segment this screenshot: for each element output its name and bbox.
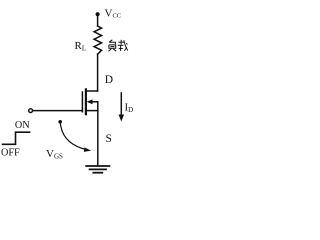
VGS curved arrow bbox=[58, 120, 62, 124]
MOSFET Q1 channel segment bottom bbox=[85, 107, 87, 114]
svg-text:RL: RL bbox=[75, 40, 87, 53]
svg-text:ID: ID bbox=[125, 102, 134, 115]
MOSFET Q1 gate plate bbox=[81, 92, 83, 112]
ID current arrow bbox=[120, 93, 122, 116]
svg-text:VCC: VCC bbox=[105, 8, 122, 20]
svg-text:OFF: OFF bbox=[1, 148, 20, 159]
svg-text:D: D bbox=[105, 74, 113, 86]
gate input open terminal bbox=[29, 109, 33, 113]
svg-text:S: S bbox=[106, 133, 112, 145]
Vcc terminal dot bbox=[96, 12, 100, 16]
MOSFET Q1 body arrow bbox=[92, 101, 98, 103]
ground bbox=[86, 166, 109, 173]
载 bbox=[118, 41, 124, 43]
wire resistor to drain bbox=[97, 54, 99, 91]
wire source to ground bbox=[97, 102, 99, 165]
MOSFET Q1 source stub bbox=[86, 110, 98, 112]
svg-text:VGS: VGS bbox=[46, 148, 63, 161]
MOSFET Q1 channel segment middle bbox=[85, 98, 87, 105]
负 bbox=[109, 40, 112, 43]
MOSFET Q1 drain stub bbox=[86, 90, 98, 92]
svg-text:ON: ON bbox=[15, 120, 30, 131]
wire Vcc to resistor bbox=[97, 15, 99, 26]
label 负载 (load) hand-drawn glyphs bbox=[108, 40, 127, 52]
wire gate lead bbox=[33, 110, 83, 112]
MOSFET Q1 channel segment top bbox=[85, 89, 87, 96]
resistor RL zigzag bbox=[94, 26, 102, 54]
step waveform ON/OFF bbox=[3, 132, 30, 144]
